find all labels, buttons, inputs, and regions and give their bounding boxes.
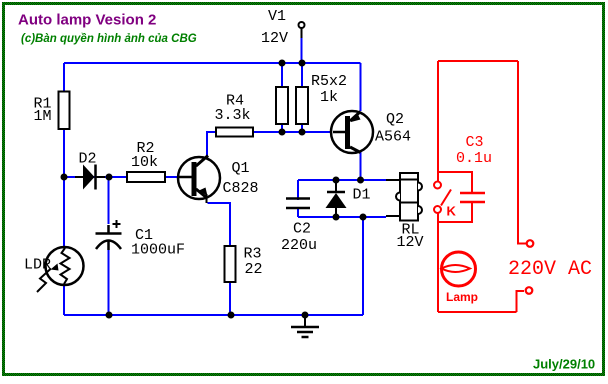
junction Q2 collector relay	[357, 177, 364, 184]
wire red left lower	[437, 213, 439, 312]
wire to ground corner	[362, 217, 364, 315]
junction R5 left bottom	[279, 129, 286, 136]
svg-text:C828: C828	[223, 180, 259, 197]
junction top rail left	[279, 60, 286, 67]
svg-text:Q1: Q1	[232, 160, 250, 177]
wire R5 left leg	[281, 63, 283, 132]
V1 terminal	[301, 28, 303, 38]
terminal AC top	[527, 240, 534, 247]
resistor R1	[59, 92, 70, 130]
wire V1 drop	[301, 37, 303, 63]
ground	[304, 315, 306, 327]
svg-text:D2: D2	[79, 151, 97, 168]
wire bottom rail	[64, 314, 363, 316]
lamp	[442, 252, 476, 286]
junction D1 top	[333, 177, 340, 184]
wire red bottom	[438, 311, 517, 313]
wire red right upper	[518, 61, 526, 244]
svg-text:Q2: Q2	[386, 111, 404, 128]
wire relay top line	[298, 179, 386, 181]
svg-text:R5x2: R5x2	[311, 73, 347, 90]
svg-text:A564: A564	[375, 129, 411, 146]
svg-text:C2: C2	[293, 221, 311, 238]
svg-text:Auto lamp Vesion 2: Auto lamp Vesion 2	[18, 12, 156, 29]
resistor R4	[216, 128, 253, 137]
relay RL coil	[386, 179, 399, 181]
junction D2 anode	[61, 174, 68, 181]
svg-text:12V: 12V	[261, 30, 288, 47]
capacitor C1	[100, 224, 117, 249]
LDR	[46, 247, 84, 285]
terminal AC bottom	[526, 287, 533, 294]
svg-text:22: 22	[245, 261, 263, 278]
svg-text:10k: 10k	[131, 154, 158, 171]
svg-text:LDR: LDR	[24, 257, 51, 274]
resistor R5 right	[296, 87, 308, 124]
svg-text:July/29/10: July/29/10	[533, 357, 595, 372]
wire Q2 collector	[360, 152, 362, 180]
svg-text:D1: D1	[353, 187, 371, 204]
junction ground drop	[360, 214, 367, 221]
wire top rail	[64, 62, 361, 64]
wire left vertical	[63, 63, 65, 315]
wire Q2 emitter	[360, 63, 362, 111]
resistor R2	[127, 172, 165, 182]
svg-text:Lamp: Lamp	[446, 290, 478, 304]
wire C2 branch	[297, 180, 299, 217]
diode D2	[75, 176, 83, 178]
diode D1	[335, 180, 337, 193]
wire Q1 collector	[207, 132, 216, 158]
junction D2 cathode C1	[106, 174, 113, 181]
junction top rail right	[299, 60, 306, 67]
wire red loop top	[438, 60, 518, 62]
transistor Q2	[331, 111, 373, 153]
junction R3 bottom	[228, 312, 235, 319]
svg-text:C3: C3	[466, 134, 484, 151]
svg-text:1M: 1M	[34, 108, 52, 125]
svg-text:0.1u: 0.1u	[456, 150, 492, 167]
relay contact K	[434, 182, 441, 189]
wire Q1 emitter to R3	[208, 203, 231, 315]
wire red right lower	[517, 291, 525, 312]
resistor R3	[225, 246, 236, 282]
svg-text:R3: R3	[244, 246, 262, 263]
svg-text:1k: 1k	[320, 89, 338, 106]
wire relay bottom line	[298, 216, 386, 218]
svg-text:V1: V1	[268, 8, 286, 25]
junction R5 right bottom	[299, 129, 306, 136]
wire D2 R2 line	[64, 176, 190, 178]
wire red left upper	[437, 61, 439, 182]
svg-text:1000uF: 1000uF	[131, 242, 185, 259]
capacitor C2	[292, 200, 305, 207]
svg-text:12V: 12V	[397, 234, 424, 251]
wire R4 to Q2 base	[253, 131, 333, 133]
svg-text:3.3k: 3.3k	[215, 107, 251, 124]
capacitor C3	[438, 172, 472, 193]
wire C1 branch	[108, 177, 110, 315]
wire R5 right leg	[301, 63, 303, 132]
svg-text:K: K	[447, 204, 457, 219]
svg-text:220u: 220u	[281, 237, 317, 254]
transistor Q1	[178, 157, 220, 199]
svg-text:220V AC: 220V AC	[508, 258, 592, 281]
svg-text:(c)Bàn quyền hình ảnh của CBG: (c)Bàn quyền hình ảnh của CBG	[21, 33, 197, 45]
junction C1 bottom	[106, 312, 113, 319]
resistor R5 left	[276, 87, 288, 124]
junction D1 bottom	[333, 214, 340, 221]
junction ground rail	[302, 312, 309, 319]
